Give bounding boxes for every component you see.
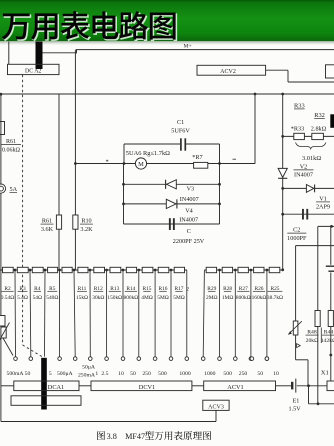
resistor chain1 box9 [126, 267, 136, 272]
wire right branch [282, 94, 284, 169]
svg-text:1000PF: 1000PF [287, 235, 307, 242]
svg-text:R12: R12 [94, 286, 103, 292]
diode V4 IN4007 [166, 199, 176, 208]
wire [192, 385, 204, 387]
wire cap loop left [123, 144, 125, 164]
wire meter row [75, 163, 255, 165]
resistor chain1 box3 [32, 267, 43, 272]
diode V1 2AP9 [306, 185, 313, 193]
svg-text:10: 10 [118, 371, 124, 377]
svg-text:R13: R13 [110, 286, 119, 292]
wire from ACV2 [266, 69, 288, 71]
svg-text:4MΩ: 4MΩ [141, 295, 153, 301]
resistor chain2 box5 [269, 267, 280, 272]
resistor chain1 box1 [3, 267, 14, 272]
green title banner [0, 0, 334, 41]
svg-text:250: 250 [239, 371, 248, 377]
dashed selector link [22, 75, 24, 345]
svg-text:R4: R4 [34, 286, 41, 292]
svg-text:V4: V4 [185, 208, 193, 215]
svg-text:ACV1: ACV1 [227, 384, 243, 391]
battery E1 1.5V [291, 382, 293, 390]
potentiometer WH2 (ohm adjust) [293, 321, 298, 335]
svg-text:3.2K: 3.2K [80, 226, 93, 233]
svg-text:20kΩ: 20kΩ [306, 338, 319, 344]
resistor chain1 box7 [94, 267, 105, 272]
switch block ACV1 [204, 381, 276, 391]
svg-text:R16: R16 [159, 286, 168, 292]
wire bottom right [309, 403, 334, 405]
svg-text:500: 500 [158, 371, 167, 377]
svg-text:R44: R44 [324, 330, 334, 336]
svg-text:2.8kΩ: 2.8kΩ [311, 125, 327, 132]
resistor chain2 box3 [238, 267, 248, 272]
resistor chain1 box4 [48, 267, 58, 272]
svg-text:500: 500 [223, 371, 232, 377]
wire ladder right [219, 144, 221, 224]
svg-text:ACV2: ACV2 [220, 69, 236, 75]
fuse BX 5A [0, 184, 6, 193]
svg-text:DCA1: DCA1 [48, 384, 64, 391]
svg-text:5A: 5A [10, 186, 18, 193]
svg-text:R3: R3 [19, 286, 26, 292]
wire C2 row [283, 213, 334, 215]
wire down to R48 [317, 226, 319, 310]
wire [296, 359, 308, 361]
svg-text:IN4007: IN4007 [179, 216, 198, 223]
svg-text:C1: C1 [177, 119, 184, 126]
svg-text:30kΩ: 30kΩ [92, 295, 104, 301]
svg-text:2AP9: 2AP9 [316, 204, 330, 211]
switch block DC A2 [8, 64, 60, 74]
wire from selector bar to M+ line [43, 52, 78, 54]
svg-text:50μA: 50μA [82, 364, 96, 370]
junction [329, 354, 332, 357]
resistor chain1 box12 [174, 267, 184, 272]
wire M+ branch down [74, 50, 76, 215]
svg-text:R10: R10 [81, 218, 91, 225]
switch block ACV2 [197, 65, 266, 75]
svg-text:MF47: MF47 [125, 432, 145, 441]
wire M+ bus [76, 49, 334, 51]
switch block right edge [327, 381, 334, 391]
svg-text:R26: R26 [255, 286, 264, 292]
svg-text:R29: R29 [207, 286, 216, 292]
selector contact lines and terminals [14, 270, 17, 357]
resistor chain1 box8 [110, 267, 121, 272]
wire V4 row [124, 203, 220, 205]
svg-text:M: M [138, 161, 144, 168]
capacitor marks right edge [326, 265, 334, 267]
wire diagonal to terminal [3, 338, 13, 356]
junction [123, 162, 126, 165]
wire below pot [295, 335, 297, 360]
svg-text:*R33: *R33 [291, 125, 304, 132]
svg-text:5UF6V: 5UF6V [171, 127, 190, 134]
adjust arrow on left component [0, 323, 10, 342]
svg-text:142kΩ: 142kΩ [321, 338, 334, 344]
svg-text:R61: R61 [6, 139, 16, 145]
svg-text:250: 250 [142, 371, 151, 377]
wire down left [295, 246, 297, 321]
wire from battery [297, 385, 327, 387]
svg-text:50: 50 [257, 371, 263, 377]
capacitor C 2200PF 25V [169, 218, 171, 230]
wire C row [124, 223, 220, 225]
svg-text:1000: 1000 [179, 371, 191, 377]
wire [79, 385, 91, 387]
caption 图3.8 MF47型万用表原理图 [97, 431, 105, 440]
svg-text:R48: R48 [307, 330, 317, 336]
resistor R33 [294, 133, 305, 139]
capacitor C1 5UF6V [180, 138, 182, 150]
wire left edge lower [0, 193, 2, 270]
svg-text:250mA: 250mA [78, 372, 96, 378]
svg-text:1: 1 [95, 371, 98, 377]
svg-text:0.54Ω: 0.54Ω [1, 295, 14, 301]
wire right edge [330, 226, 332, 264]
wire right edge lower2 [330, 327, 332, 381]
wire to battery [276, 385, 292, 387]
svg-text:1MΩ: 1MΩ [222, 295, 234, 301]
svg-text:R5: R5 [49, 286, 56, 292]
svg-text:5.4Ω: 5.4Ω [17, 295, 28, 301]
svg-text:R2: R2 [4, 286, 11, 292]
resistor chain1 box11 [158, 267, 169, 272]
wire elbow [76, 50, 78, 54]
diode V2 IN4007 (vertical) [278, 168, 287, 177]
svg-text:2MΩ: 2MΩ [206, 295, 218, 301]
svg-text:*: * [106, 158, 109, 165]
title 万用表电路图 [3, 15, 31, 41]
svg-text:50: 50 [130, 371, 136, 377]
meter M [135, 158, 146, 169]
svg-text:C: C [187, 228, 191, 235]
resistor R48 [315, 311, 320, 327]
wire [307, 360, 309, 386]
wire R33 R32 row [283, 135, 334, 137]
switch block ACV3 [203, 400, 229, 410]
switch block row2 [11, 396, 81, 406]
svg-text:1.5V: 1.5V [289, 406, 302, 413]
svg-text:0.06kΩ: 0.06kΩ [2, 147, 21, 153]
junction [218, 162, 221, 165]
resistor chain2 box1 [206, 267, 216, 272]
capacitor C2 1000PF [302, 209, 304, 220]
wire chain2 [204, 269, 282, 271]
svg-text:5UA6 Rg≤1.7kΩ: 5UA6 Rg≤1.7kΩ [126, 150, 170, 157]
junction [317, 402, 320, 405]
resistor R10 3.2K [73, 215, 78, 229]
wire X1 column [317, 327, 319, 404]
svg-text:500mA: 500mA [6, 371, 24, 377]
wire cap loop top right [186, 143, 220, 145]
svg-text:5MΩ: 5MΩ [157, 295, 169, 301]
wire main bus [0, 93, 334, 95]
wire ACV3 down [215, 410, 217, 421]
junction [281, 135, 284, 138]
wire [74, 229, 76, 270]
svg-text:M+: M+ [184, 44, 192, 50]
wire [308, 386, 310, 404]
switch block DCV1 [91, 381, 192, 391]
svg-text:DC A2: DC A2 [25, 69, 41, 75]
resistor R32 [312, 133, 324, 139]
wire to DCA1 [1, 385, 14, 387]
svg-text:R27: R27 [239, 286, 248, 292]
junction [330, 225, 333, 228]
resistor R44 [328, 311, 333, 327]
svg-text:50: 50 [25, 371, 31, 377]
resistor chain2 box2 [222, 267, 232, 272]
wire [58, 229, 60, 270]
junction [281, 93, 284, 96]
selector bar (bottom) [41, 358, 47, 410]
svg-text:R11: R11 [78, 286, 87, 292]
switch block DCA1 [14, 381, 79, 391]
svg-text:DCV1: DCV1 [139, 384, 155, 391]
wire V1 row [283, 187, 334, 189]
svg-text:800kΩ: 800kΩ [236, 295, 251, 301]
svg-text:160kΩ: 160kΩ [252, 295, 267, 301]
svg-text:540Ω: 540Ω [46, 295, 58, 301]
svg-text:R61: R61 [42, 218, 52, 225]
svg-text:R15: R15 [143, 286, 152, 292]
resistor R7 [194, 162, 208, 168]
wire right edge lower [330, 273, 332, 311]
svg-text:ACV3: ACV3 [208, 404, 224, 410]
resistor R61 shunt (left edge, cut) [0, 122, 5, 135]
svg-text:15kΩ: 15kΩ [76, 295, 88, 301]
svg-text:R14: R14 [126, 286, 135, 292]
wire into DC A2 box [8, 42, 10, 65]
svg-text:1000: 1000 [204, 371, 216, 377]
dashed selector link diagonal [23, 345, 43, 357]
left edge components [0, 270, 2, 316]
wire bottom bus [1, 421, 216, 423]
svg-text:IN4007: IN4007 [294, 172, 313, 179]
svg-text:2200PF 25V: 2200PF 25V [173, 238, 205, 245]
diode V3 IN4007 [167, 180, 177, 189]
svg-text:R32: R32 [314, 112, 325, 119]
svg-text:3.8: 3.8 [107, 432, 117, 441]
svg-text:C2: C2 [293, 227, 300, 234]
wire ladder left [123, 164, 125, 225]
wire right [288, 81, 334, 83]
svg-text:*R7: *R7 [192, 154, 202, 161]
wire cap loop top [124, 143, 180, 145]
switch block (right edge, cut) [326, 65, 334, 78]
svg-text:R25: R25 [271, 286, 280, 292]
svg-text:R33: R33 [294, 103, 305, 110]
svg-text:R28: R28 [223, 286, 232, 292]
wire from bus to meter [254, 94, 256, 164]
svg-text:5: 5 [49, 371, 52, 377]
wire V3 row [124, 183, 220, 185]
tick mark [233, 158, 237, 160]
junction [254, 93, 257, 96]
svg-text:3.01kΩ: 3.01kΩ [302, 155, 321, 162]
svg-text:150kΩ: 150kΩ [107, 295, 122, 301]
resistor chain1 box10 [142, 267, 153, 272]
wire corner 2 [296, 245, 334, 247]
brace under R33 R32 [296, 143, 326, 149]
label separator [320, 328, 322, 344]
svg-text:V3: V3 [187, 186, 195, 193]
resistor chain1 box2 [17, 267, 28, 272]
pot arrow [288, 321, 302, 334]
svg-text:38.7kΩ: 38.7kΩ [267, 295, 283, 301]
wire left edge [0, 94, 2, 184]
wire chain1 [0, 269, 187, 271]
svg-text:2.5: 2.5 [101, 371, 108, 377]
junction [281, 213, 284, 216]
resistor chain2 box4 [254, 267, 264, 272]
junction M- [74, 162, 77, 165]
black component (right edge, cut) [330, 114, 334, 128]
wire down [287, 70, 289, 82]
wire corner top [318, 225, 334, 227]
svg-text:10: 10 [273, 371, 279, 377]
resistor chain1 box6 [78, 267, 88, 272]
svg-text:54Ω: 54Ω [33, 295, 42, 301]
svg-text:500μA: 500μA [57, 371, 74, 377]
wire to R61b [58, 94, 60, 215]
svg-text:V2: V2 [300, 163, 308, 170]
junction [281, 187, 284, 190]
wire right branch lower [282, 178, 284, 270]
svg-text:3.6K: 3.6K [41, 226, 54, 233]
svg-text:IN4007: IN4007 [180, 196, 199, 203]
svg-text:E1: E1 [293, 398, 300, 405]
svg-text:V1: V1 [319, 195, 327, 202]
resistor R61 3.6K [56, 215, 61, 229]
svg-text:5MΩ: 5MΩ [173, 295, 185, 301]
junction [0, 93, 2, 96]
svg-text:X1: X1 [321, 370, 329, 377]
resistor chain1 box5 [62, 267, 72, 272]
svg-text:800kΩ: 800kΩ [124, 295, 139, 301]
selector bar (top) [36, 42, 43, 70]
svg-text:R17: R17 [175, 286, 184, 292]
